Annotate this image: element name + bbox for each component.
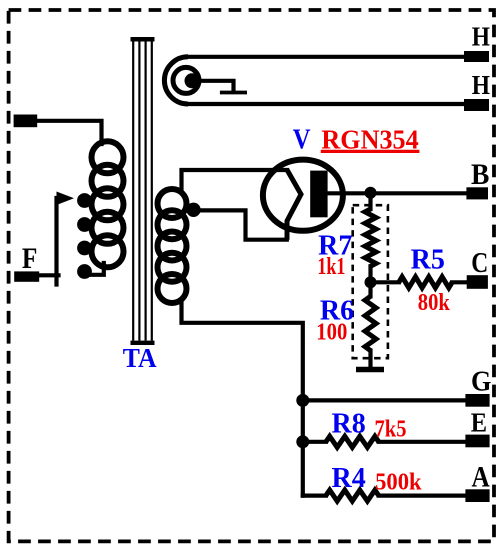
svg-text:C: C: [471, 248, 488, 279]
svg-text:100: 100: [316, 319, 347, 345]
svg-text:R5: R5: [411, 245, 445, 276]
svg-text:7k5: 7k5: [375, 416, 407, 442]
svg-text:500k: 500k: [375, 469, 422, 495]
svg-text:80k: 80k: [418, 290, 451, 316]
svg-text:RGN354: RGN354: [321, 123, 419, 154]
svg-text:F: F: [22, 243, 38, 275]
svg-text:R4: R4: [332, 463, 366, 494]
svg-text:B: B: [471, 159, 489, 191]
svg-text:1k1: 1k1: [317, 254, 345, 280]
svg-text:V: V: [293, 124, 311, 155]
svg-text:H: H: [472, 20, 490, 51]
svg-text:H: H: [472, 69, 490, 100]
svg-text:R8: R8: [332, 409, 366, 440]
svg-text:E: E: [471, 406, 487, 437]
svg-text:TA: TA: [123, 343, 157, 373]
svg-text:A: A: [472, 462, 491, 494]
svg-text:G: G: [471, 366, 491, 397]
